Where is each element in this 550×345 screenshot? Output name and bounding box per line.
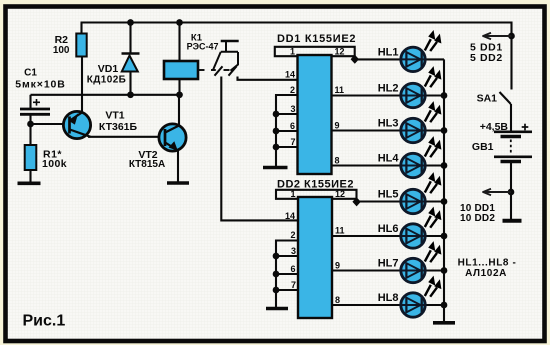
transistor VT2 <box>129 124 186 170</box>
svg-text:C1: C1 <box>24 68 37 79</box>
relay coil K1 <box>164 23 219 127</box>
svg-text:8: 8 <box>335 156 340 166</box>
wire power stub arrow 5 DD1/DD2 <box>483 33 512 39</box>
wire DD1 pin8 to HL4 row <box>332 164 445 166</box>
svg-text:3: 3 <box>291 246 296 256</box>
wire reset stub arrow 10 DD1/DD2 <box>483 189 512 195</box>
wire battery minus down <box>510 162 512 220</box>
node K1 top junction <box>176 19 183 26</box>
wire VT1 collector to VT2 base <box>88 136 160 138</box>
svg-text:HL7: HL7 <box>378 258 399 270</box>
wire right bus down to SA1 <box>510 22 512 90</box>
LED HL7 <box>378 241 442 283</box>
wire VT2 emitter to ground <box>177 150 179 182</box>
LED HL6 <box>378 207 442 249</box>
counter IC DD1 K155IE2 <box>277 33 356 174</box>
label 10 DD1 / 10 DD2 <box>460 203 495 224</box>
node DD2 pin6 junction <box>273 271 280 278</box>
svg-text:12: 12 <box>335 189 345 199</box>
node DD1 pin12 junction <box>351 55 359 64</box>
wire DD1 pins 2,3,6,7 bus to ground <box>276 95 298 166</box>
svg-text:7: 7 <box>290 137 295 147</box>
svg-text:14: 14 <box>285 211 295 221</box>
wire contact to DD1 pin 14 <box>238 77 299 80</box>
switch SA1 <box>477 92 511 131</box>
svg-text:11: 11 <box>335 85 345 95</box>
wire DD1 pin1 to pin12 loop <box>275 47 355 59</box>
wire DD1 pin9 to HL3 row <box>332 129 445 131</box>
label HL1...HL8 type <box>458 258 517 280</box>
node HL4 bus junction <box>441 162 448 169</box>
ground R1 <box>18 182 41 186</box>
ground DD2 <box>266 307 288 311</box>
svg-text:9: 9 <box>335 261 340 271</box>
svg-text:HL4: HL4 <box>378 153 400 165</box>
node DD2 pin7 junction <box>273 287 280 294</box>
wire DD2 pins 2,3,6,7 bus to ground <box>276 241 298 308</box>
node K1 bottom junction <box>176 91 183 98</box>
pin numbers DD2 <box>285 189 345 305</box>
node VD1 top junction <box>127 19 134 26</box>
node C1 / VT1 base junction <box>27 121 34 128</box>
resistor R2 <box>53 23 87 57</box>
svg-text:HL6: HL6 <box>378 223 399 235</box>
svg-text:VD1: VD1 <box>98 63 119 75</box>
svg-text:HL2: HL2 <box>378 83 399 95</box>
LED HL5 <box>378 172 442 214</box>
ground LED bus <box>433 321 455 325</box>
svg-text:12: 12 <box>335 47 345 57</box>
svg-text:6: 6 <box>290 121 295 131</box>
svg-text:DD1 К155ИЕ2: DD1 К155ИЕ2 <box>277 33 356 45</box>
node VD1 bottom junction <box>127 91 134 98</box>
svg-text:10 DD2: 10 DD2 <box>460 213 495 224</box>
wire top supply bus <box>81 21 512 23</box>
svg-text:100k: 100k <box>42 158 67 170</box>
svg-text:КД102Б: КД102Б <box>87 75 127 86</box>
wire LED cathode bus <box>443 59 445 321</box>
svg-text:HL5: HL5 <box>378 189 399 201</box>
label 5 DD1 / 5 DD2 <box>470 42 503 65</box>
LED HL1 <box>378 30 442 72</box>
svg-text:+4,5В: +4,5В <box>480 121 509 133</box>
svg-text:HL1: HL1 <box>378 47 399 59</box>
LED HL3 <box>378 101 442 143</box>
node DD1 pin6 junction <box>273 128 280 135</box>
wire DD2 pin8 to HL8 row <box>332 304 444 306</box>
wire DD2 pin9 to HL7 row <box>332 269 444 271</box>
node reset stub junction <box>508 189 515 196</box>
svg-text:7: 7 <box>291 280 296 290</box>
pin numbers DD1 <box>285 47 345 166</box>
svg-text:HL1...HL8 -: HL1...HL8 - <box>458 258 517 269</box>
wire DD2 pin12 to HL5 row <box>357 200 444 202</box>
svg-text:5мк×10В: 5мк×10В <box>15 79 66 91</box>
wire DD2 pin11 to HL6 row <box>332 235 444 237</box>
node HL3 bus junction <box>441 127 448 134</box>
svg-text:1: 1 <box>290 47 295 57</box>
capacitor C1 <box>15 68 66 146</box>
wire lower bus VD1/K1 <box>31 94 180 96</box>
ground VT2 <box>167 181 189 185</box>
node HL8 bus junction <box>441 302 448 309</box>
svg-text:14: 14 <box>285 70 295 80</box>
LED HL2 <box>378 66 442 108</box>
svg-text:GB1: GB1 <box>472 141 494 153</box>
wire DD1 pin12 to HL1 row <box>355 58 444 60</box>
ground DD1 <box>263 166 288 170</box>
svg-text:КТ815А: КТ815А <box>129 159 165 170</box>
svg-text:100: 100 <box>53 45 70 56</box>
svg-text:9: 9 <box>335 121 340 131</box>
svg-text:6: 6 <box>290 264 295 274</box>
svg-text:VT1: VT1 <box>105 110 124 122</box>
svg-text:SA1: SA1 <box>477 93 498 105</box>
wire DD2 pin1 to pin12 loop <box>276 190 357 201</box>
svg-text:5 DD2: 5 DD2 <box>470 52 503 64</box>
node DD1 pin7 junction <box>273 144 280 151</box>
svg-text:8: 8 <box>335 295 340 305</box>
wire contact to DD2 pin 14 <box>221 77 298 221</box>
svg-text:КТ361Б: КТ361Б <box>99 121 138 133</box>
svg-text:Рис.1: Рис.1 <box>23 313 66 330</box>
svg-text:11: 11 <box>335 226 345 236</box>
wire DD1 pin11 to HL2 row <box>332 94 445 96</box>
svg-text:1: 1 <box>290 189 295 199</box>
LED HL8 <box>378 276 442 318</box>
ground battery terminal <box>503 219 522 223</box>
wire R2 to VT1 emitter <box>81 57 83 113</box>
LED HL4 <box>378 136 442 178</box>
svg-text:2: 2 <box>290 230 295 240</box>
diode VD1 <box>87 23 140 95</box>
counter IC DD2 K155IE2 <box>277 179 354 319</box>
svg-text:3: 3 <box>290 104 295 114</box>
node DD1 pin3 junction <box>273 111 280 118</box>
node HL6 bus junction <box>441 233 448 240</box>
svg-text:РЭС-47: РЭС-47 <box>187 42 219 52</box>
node power stub junction <box>508 33 515 40</box>
svg-text:HL8: HL8 <box>378 292 399 304</box>
wire base junction to VT1 <box>31 123 65 125</box>
node HL7 bus junction <box>441 267 448 274</box>
battery GB1 <box>472 121 532 162</box>
node DD2 pin12 junction <box>352 197 360 206</box>
relay contact K1.1 <box>199 41 239 76</box>
node HL2 bus junction <box>441 92 448 99</box>
svg-text:2: 2 <box>290 85 295 95</box>
node DD2 pin3 junction <box>273 253 280 260</box>
node HL5 bus junction <box>441 198 448 205</box>
svg-text:АЛ102А: АЛ102А <box>465 268 507 279</box>
resistor R1 <box>25 145 67 182</box>
transistor VT1 <box>63 110 137 139</box>
svg-text:HL3: HL3 <box>378 118 399 130</box>
